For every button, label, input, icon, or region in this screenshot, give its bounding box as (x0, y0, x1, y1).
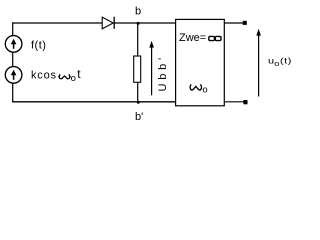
output voltage arrow uo(t) (points up) (256, 29, 261, 97)
svg-text:Ubb': Ubb' (157, 54, 169, 91)
svg-text:kcos: kcos (31, 70, 57, 82)
box Zwe (ideal block) (176, 19, 225, 105)
wire between the two sources (12, 52, 14, 66)
svg-text:(t): (t) (280, 57, 292, 67)
svg-text:b': b' (135, 111, 143, 123)
label uo(t) (268, 57, 292, 68)
label w0 inside box (190, 84, 208, 95)
wire top-left horizontal (source loop to diode anode) (12, 22, 102, 24)
wire left vertical lower (source down to bottom rail) (12, 83, 14, 102)
wire diode cathode to box left edge (115, 22, 176, 24)
node b' junction dot (137, 101, 140, 104)
current source f(t) (5, 36, 22, 53)
wire left vertical upper (corner down to source f(t)) (12, 22, 14, 35)
svg-text:o: o (202, 85, 207, 96)
wire node b down to resistor (137, 23, 139, 57)
svg-text:f(t): f(t) (31, 40, 46, 52)
svg-text:b: b (135, 6, 141, 18)
svg-text:o: o (71, 73, 76, 84)
wire bottom rail (left corner to box left edge) (12, 101, 176, 103)
wire box right edge to top terminal (224, 22, 243, 24)
svg-text:Zwe=: Zwe= (179, 32, 206, 44)
bottom output terminal (243, 100, 247, 104)
diode D (anode left, cathode right) (102, 17, 114, 29)
current source kcos w0t (5, 67, 22, 84)
voltage arrow Ubb' (points up) (149, 41, 154, 96)
label kcos w0 t (31, 67, 81, 84)
resistor (Rb'b) (134, 56, 141, 82)
label Zwe= infinity (179, 32, 221, 44)
wire box right edge to bottom terminal (224, 101, 243, 103)
node b junction dot (137, 22, 140, 25)
svg-text:u: u (268, 57, 274, 67)
top output terminal (243, 21, 247, 25)
wire resistor down to bottom rail (137, 82, 139, 102)
